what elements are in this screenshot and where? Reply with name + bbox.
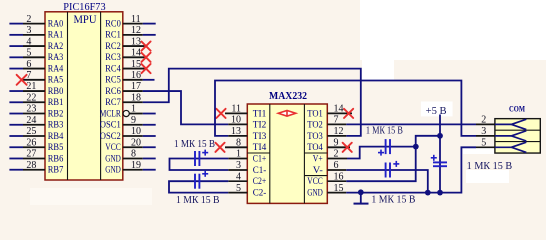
junction: C4 to GND rail [425, 190, 431, 196]
PIC pin 28 (RB7) stub [9, 169, 23, 171]
COM pin 3 stub [476, 135, 495, 137]
MAX232 pin 9 (TO4) stub [327, 146, 350, 148]
svg-text:RC7: RC7 [105, 97, 121, 107]
svg-text:GND: GND [105, 165, 121, 175]
MAX232 pin 6 (V-) stub [327, 169, 346, 171]
svg-text:PIC16F73: PIC16F73 [63, 1, 106, 13]
MAX232 pin 3 (C1-) stub [228, 169, 247, 171]
COM pin 5 contact chevron [495, 146, 512, 148]
MAX232 pin 1 (C1+) stub [228, 158, 247, 160]
PIC pin 4 (RA2) stub [9, 45, 23, 47]
svg-text:RC6: RC6 [105, 86, 121, 96]
svg-text:4: 4 [26, 36, 31, 47]
MAX232 pin 7 (TO2) stub [327, 123, 346, 125]
junction: C3 to VCC riser [413, 144, 419, 150]
svg-text:RC5: RC5 [105, 75, 121, 85]
PIC pin 14 (RC3) stub [123, 56, 145, 58]
capacitor C4 plates 1 MK 15 V [386, 163, 390, 178]
svg-text:RB2: RB2 [48, 108, 64, 118]
svg-text:TO3: TO3 [307, 131, 323, 141]
IC U1 PIC16F73 (MPU) body [45, 12, 123, 180]
PIC pin 2 (RA0) stub [9, 23, 23, 25]
svg-text:V-: V- [313, 165, 323, 175]
svg-text:C2+: C2+ [253, 176, 266, 186]
svg-text:RB6: RB6 [48, 153, 64, 163]
svg-text:TO2: TO2 [307, 119, 323, 129]
svg-text:RB5: RB5 [48, 142, 64, 152]
MAX232 pin 5 (C2-) stub [228, 192, 247, 194]
no-connect X on PIC pin 15 (RC4) [141, 64, 150, 73]
svg-text:VCC: VCC [105, 142, 121, 152]
PIC pin 24 (RB3) stub [9, 124, 23, 126]
C3 polarity + [378, 150, 384, 156]
svg-text:RA4: RA4 [48, 63, 64, 73]
no-connect X on MAX pin 9 [343, 143, 352, 152]
PIC pin 7 (RA5) stub [22, 79, 45, 81]
svg-text:RB0: RB0 [48, 86, 64, 96]
ground symbol [360, 193, 362, 204]
svg-text:TO4: TO4 [307, 142, 323, 152]
svg-text:28: 28 [26, 160, 36, 171]
COM pin 2 contact chevron [495, 123, 512, 125]
svg-text:24: 24 [26, 115, 36, 126]
svg-text:1 МК 15 В: 1 МК 15 В [174, 139, 215, 150]
wire: +5V node down through capacitor C5 to GND rail [439, 136, 441, 193]
capacitor C3 plates 1 MK 15 V [386, 139, 390, 154]
svg-text:OSC1: OSC1 [100, 120, 121, 130]
svg-text:VCC: VCC [307, 176, 323, 186]
svg-text:RB4: RB4 [48, 131, 64, 141]
svg-text:COM: COM [509, 103, 525, 113]
PIC pin 22 (RB1) stub [9, 101, 23, 103]
PIC pin 6 (RA4) stub [9, 68, 23, 70]
PIC pin 25 (RB4) stub [9, 135, 23, 137]
COM pin 3 contact chevron [495, 135, 512, 137]
+5V power stub [439, 115, 441, 136]
svg-text:RB7: RB7 [48, 165, 64, 175]
svg-text:RB1: RB1 [48, 97, 64, 107]
PIC pin 19 (GND) stub [123, 169, 143, 171]
PIC pin 17 (RC6) stub [123, 90, 143, 92]
C4 polarity + [393, 161, 399, 167]
PIC pin 21 (RB0) stub [9, 90, 23, 92]
junction: C5 to GND rail [437, 190, 443, 196]
PIC pin 12 (RC1) stub [123, 34, 143, 36]
junction: +5V node [437, 133, 443, 139]
MAX232 pin 2 (V+) stub [327, 158, 347, 160]
C2 polarity + [202, 171, 208, 177]
MAX232 pin 8 (TI4) stub [225, 146, 247, 148]
PIC pin 26 (RB5) stub [9, 146, 23, 148]
svg-text:C1+: C1+ [253, 153, 266, 163]
PIC pin 27 (RB6) stub [9, 157, 23, 159]
svg-text:RC4: RC4 [105, 63, 121, 73]
svg-text:RA1: RA1 [48, 30, 64, 40]
MAX232 inner column lines [269, 104, 271, 203]
capacitor C5 plates (horizontal) 1 MK 15 V [433, 162, 447, 166]
no-connect X on MAX pin 8 [215, 143, 224, 152]
svg-text:V+: V+ [313, 153, 323, 163]
PIC pin 13 (RC2) stub [123, 45, 145, 47]
wire: RC7(18) up-over to MAX TO3(12) [143, 69, 361, 136]
svg-text:TI3: TI3 [253, 131, 267, 141]
PIC pin 10 (OSC2) stub [123, 135, 143, 137]
COM pin 5 stub [476, 146, 495, 148]
C5 polarity + [431, 155, 437, 161]
svg-text:RC0: RC0 [105, 19, 121, 29]
PIC pin 15 (RC4) stub [123, 68, 145, 70]
PIC pin 11 (RC0) stub [123, 23, 143, 25]
MAX232 pin 15 (GND) stub [327, 192, 346, 194]
MAX232 section separator right (under TO4) [304, 152, 327, 154]
svg-text:TI1: TI1 [253, 108, 266, 118]
svg-text:C1-: C1- [253, 165, 267, 175]
no-connect X on MAX pin 11 [216, 109, 225, 118]
svg-text:RC1: RC1 [105, 30, 121, 40]
svg-text:RB3: RB3 [48, 120, 64, 130]
no-connect X on PIC pin 14 (RC3) [141, 53, 150, 62]
svg-text:TI4: TI4 [253, 142, 267, 152]
svg-text:RA3: RA3 [48, 52, 64, 62]
MAX232 pin 4 (C2+) stub [228, 180, 247, 182]
svg-text:3: 3 [26, 25, 31, 36]
MAX232 section separator right (under V-) [304, 175, 327, 177]
MAX232 pin 16 (VCC) stub [327, 180, 346, 182]
MAX232 section separator left (under TI4) [247, 152, 269, 154]
svg-text:26: 26 [26, 137, 36, 148]
PIC pin 20 (VCC) stub [123, 146, 143, 148]
PIC pin 3 (RA1) stub [9, 34, 23, 36]
svg-text:+5 В: +5 В [426, 106, 447, 117]
svg-text:MAX232: MAX232 [269, 91, 307, 102]
MCLR inversion bubble [123, 110, 129, 116]
svg-text:OSC2: OSC2 [100, 131, 121, 141]
svg-text:1 МК 15 В: 1 МК 15 В [467, 161, 513, 172]
MAX232 pin 10 (TI2) stub [228, 123, 247, 125]
svg-text:GND: GND [105, 153, 121, 163]
svg-text:TI2: TI2 [253, 119, 266, 129]
PIC pin 8 (GND) stub [123, 157, 143, 159]
COM internal row lines [495, 129, 540, 131]
svg-text:C2-: C2- [253, 188, 267, 198]
PIC pin 16 (RC5) stub [123, 79, 143, 81]
COM pin 2 stub [476, 123, 495, 125]
svg-text:RA2: RA2 [48, 41, 64, 51]
no-connect X on PIC pin 13 (RC2) [141, 41, 150, 50]
connector X1 COM body [495, 119, 540, 153]
svg-text:22: 22 [26, 92, 36, 103]
svg-text:MPU: MPU [74, 14, 98, 26]
svg-text:1 МК 15 В: 1 МК 15 В [366, 125, 403, 136]
svg-text:6: 6 [26, 59, 31, 70]
svg-text:2: 2 [26, 14, 31, 25]
svg-text:21: 21 [26, 81, 36, 92]
svg-text:RC3: RC3 [105, 52, 121, 62]
capacitor C1 plates 1 MK 15 V [195, 151, 199, 166]
MAX232 pin 11 (TI1) stub [225, 112, 247, 114]
MAX232 pin 14 (TO1) stub [327, 112, 352, 114]
junction: GND rail at ground symbol [358, 189, 364, 195]
svg-text:RA0: RA0 [48, 19, 64, 29]
PIC pin 18 (RC7) stub [123, 101, 143, 103]
PIC pin 9 (OSC1) stub [123, 124, 143, 126]
PIC pin 23 (RB2) stub [9, 113, 23, 115]
svg-text:27: 27 [26, 149, 36, 160]
no-connect X on PIC pin 7 (RA5) [17, 75, 27, 85]
svg-text:1 МК 15 В: 1 МК 15 В [371, 195, 415, 206]
svg-text:25: 25 [26, 126, 36, 137]
svg-text:RC2: RC2 [105, 41, 121, 51]
svg-text:23: 23 [26, 104, 36, 115]
svg-text:1 МК 15 В: 1 МК 15 В [176, 195, 220, 206]
PIC16F73 inner column lines [67, 12, 69, 180]
svg-text:MCLR: MCLR [100, 108, 121, 118]
no-connect X on MAX pin 14 [344, 109, 353, 118]
svg-text:TO1: TO1 [307, 108, 323, 118]
svg-text:GND: GND [307, 188, 323, 198]
IC U2 MAX232 body [247, 104, 327, 203]
capacitor C2 plates 1 MK 15 V [195, 174, 199, 189]
C1 polarity + [202, 150, 208, 156]
wire: RC6(17) to MAX TI2(10) [143, 91, 229, 124]
PIC pin 5 (RA3) stub [9, 56, 23, 58]
MAX232 pin 12 (TO3) stub [327, 135, 346, 137]
svg-text:RA5: RA5 [48, 75, 64, 85]
svg-text:5: 5 [26, 48, 31, 59]
MAX232 red transceiver symbol (diamond) [278, 111, 295, 117]
MAX232 pin 13 (TI3) stub [228, 135, 247, 137]
